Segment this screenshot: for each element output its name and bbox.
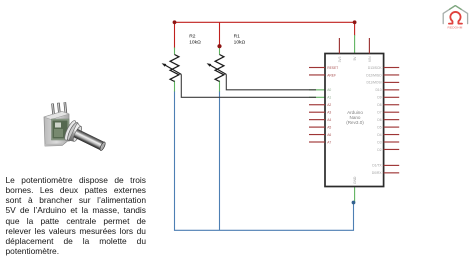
- svg-text:D12/MISO: D12/MISO: [366, 73, 382, 77]
- svg-text:A3: A3: [327, 111, 331, 115]
- svg-text:D8: D8: [377, 103, 381, 107]
- svg-text:R2: R2: [189, 33, 196, 39]
- svg-text:VIN: VIN: [368, 56, 372, 62]
- svg-text:D6: D6: [377, 118, 381, 122]
- svg-text:D3: D3: [377, 140, 381, 144]
- svg-text:D5: D5: [377, 125, 381, 129]
- svg-text:A0: A0: [327, 88, 331, 92]
- svg-text:10kΩ: 10kΩ: [234, 40, 246, 46]
- svg-text:D0/RX: D0/RX: [372, 171, 383, 175]
- svg-text:RESET: RESET: [327, 66, 338, 70]
- svg-text:3V3: 3V3: [338, 56, 342, 62]
- svg-text:D1/TX: D1/TX: [372, 164, 382, 168]
- svg-text:D2: D2: [377, 148, 381, 152]
- svg-text:D10: D10: [376, 88, 382, 92]
- svg-text:A2: A2: [327, 103, 331, 107]
- svg-text:D9: D9: [377, 96, 381, 100]
- svg-text:D13/SCK: D13/SCK: [368, 66, 383, 70]
- svg-text:A7: A7: [327, 140, 331, 144]
- svg-text:D11/MOSI: D11/MOSI: [366, 81, 381, 85]
- svg-text:A4: A4: [327, 118, 331, 122]
- svg-text:AREF: AREF: [327, 73, 336, 77]
- svg-text:A5: A5: [327, 125, 331, 129]
- svg-text:D4: D4: [377, 133, 381, 137]
- svg-text:R1: R1: [234, 33, 241, 39]
- svg-text:A1: A1: [327, 96, 331, 100]
- svg-text:D7: D7: [377, 111, 381, 115]
- svg-text:A6: A6: [327, 133, 331, 137]
- svg-text:GND: GND: [353, 176, 357, 184]
- svg-text:REDOHM: REDOHM: [448, 26, 463, 30]
- svg-text:(Rev3.0): (Rev3.0): [346, 120, 364, 125]
- svg-text:10kΩ: 10kΩ: [189, 40, 201, 46]
